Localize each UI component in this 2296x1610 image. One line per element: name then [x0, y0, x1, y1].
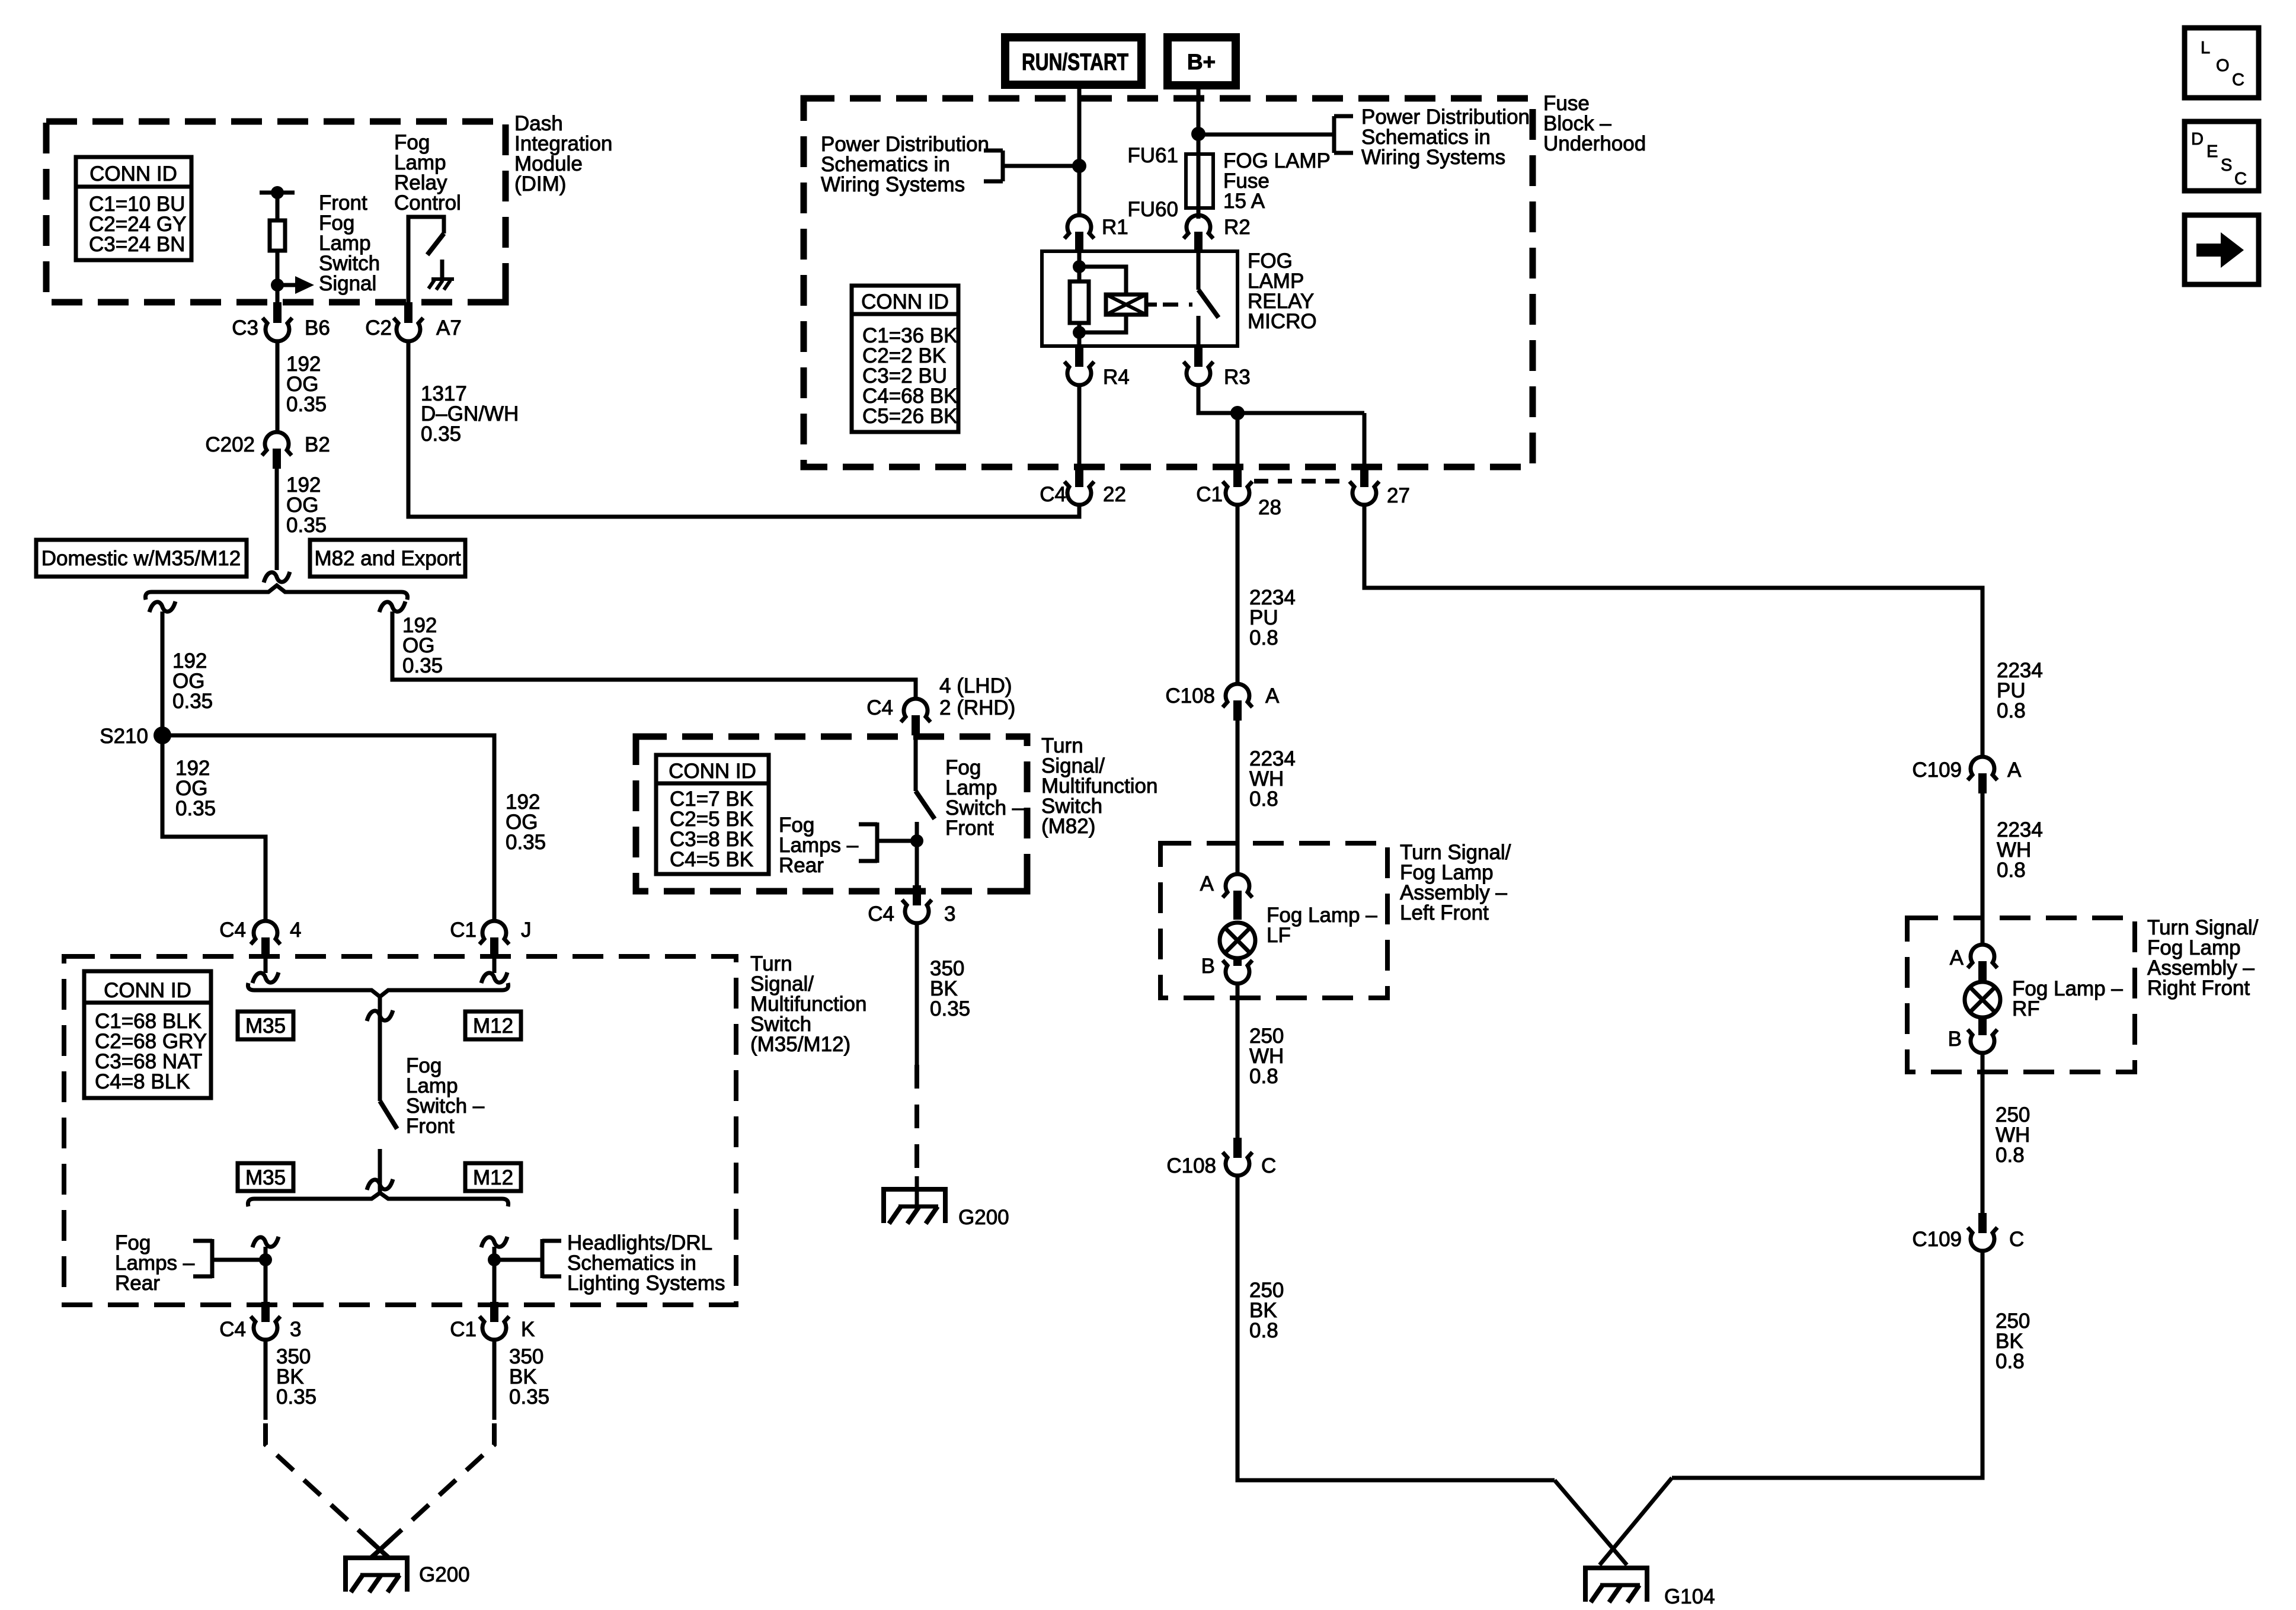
svg-text:CONN ID: CONN ID — [861, 290, 949, 313]
wire crossing above G200 — [368, 1539, 392, 1558]
connector C4 pin 3 (M35 out) — [219, 1302, 301, 1341]
svg-text:C4: C4 — [219, 918, 246, 942]
break symbol right output — [481, 1237, 507, 1247]
connector C1 pin J (M35) — [450, 918, 531, 958]
svg-text:2 (RHD): 2 (RHD) — [939, 696, 1015, 719]
svg-text:S: S — [2221, 156, 2232, 175]
svg-text:Front: Front — [406, 1115, 455, 1138]
diagonal wire to G104 (left) — [1555, 1480, 1627, 1565]
svg-text:B2: B2 — [305, 433, 330, 456]
relay solenoid X-box — [1106, 295, 1157, 315]
label Turn Signal Fog Lamp Assembly Right Front — [2147, 916, 2259, 1000]
label Fog Lamps - Rear (M35) — [115, 1231, 195, 1295]
junction dot left — [259, 1253, 272, 1266]
connector C108 pin A — [1165, 684, 1280, 721]
break symbol on switch wire — [367, 1010, 393, 1021]
label Fog Lamp Switch - Front (M82) — [945, 756, 1024, 840]
svg-text:MICRO: MICRO — [1248, 310, 1317, 333]
svg-text:0.35: 0.35 — [930, 997, 970, 1020]
break symbol domestic branch — [149, 601, 175, 612]
wire R3 to branches — [1198, 384, 1364, 413]
wire to C4 pin 3 (M82) — [915, 841, 919, 885]
svg-text:(M35/M12): (M35/M12) — [750, 1033, 850, 1056]
svg-text:G200: G200 — [958, 1206, 1009, 1229]
wire C1-K down — [493, 1339, 497, 1420]
svg-text:C4=5 BK: C4=5 BK — [670, 848, 753, 871]
DIM relay control switch — [408, 217, 444, 302]
svg-text:0.35: 0.35 — [421, 422, 461, 446]
break symbol above option split — [264, 572, 290, 582]
wire stub below C4-4 — [264, 958, 268, 973]
svg-text:R2: R2 — [1224, 216, 1251, 239]
connector pin R2 — [1184, 215, 1251, 252]
svg-text:Front: Front — [945, 817, 994, 840]
svg-text:B6: B6 — [305, 316, 330, 340]
junction dot on terminal bar — [271, 186, 284, 199]
M35 CONN ID table — [84, 971, 211, 1098]
option box M12 (lower) — [465, 1163, 521, 1191]
DIM box corner piece — [488, 284, 506, 302]
relay switch fixed contact — [1197, 316, 1201, 346]
ground G104 — [1583, 1566, 1715, 1608]
connector C109 pin C — [1912, 1213, 2024, 1251]
relay coil resistor — [1070, 281, 1089, 323]
break symbol below contact — [367, 1179, 393, 1190]
svg-text:(M82): (M82) — [1041, 815, 1095, 838]
connector C108 pin C — [1166, 1138, 1276, 1177]
connector pin B (LF) — [1201, 955, 1252, 984]
fuse FU61/FU60 FOG LAMP Fuse 15A — [1186, 154, 1213, 208]
connector pin B (RF) — [1948, 1017, 1997, 1053]
wire label 192 OG 0.35 (C202) — [286, 473, 327, 537]
DIM internal ground contact — [428, 260, 454, 290]
svg-text:A7: A7 — [436, 316, 462, 340]
svg-text:3: 3 — [290, 1318, 301, 1341]
relay box FOG LAMP RELAY MICRO — [1042, 251, 1237, 346]
wire label 2234 WH 0.8 (right) — [1997, 818, 2043, 882]
break symbol left output — [252, 1237, 279, 1247]
svg-text:0.8: 0.8 — [1997, 859, 2026, 882]
wire label 2234 WH 0.8 (left) — [1249, 747, 1296, 811]
wire label 1317 D-GN/WH 0.35 — [421, 382, 519, 446]
wire label 250 BK 0.8 (left) — [1249, 1279, 1284, 1342]
fog lamp switch front (M35) wire — [378, 997, 382, 1101]
wire right output to C1 K — [493, 1247, 497, 1302]
break symbol below C4-4 — [252, 972, 279, 983]
svg-text:R3: R3 — [1224, 366, 1251, 389]
svg-text:Domestic w/M35/M12: Domestic w/M35/M12 — [41, 547, 241, 570]
reference text: Power Distribution Schematics (right) — [1361, 105, 1530, 169]
svg-text:0.8: 0.8 — [1996, 1144, 2025, 1167]
svg-text:A: A — [1950, 946, 1964, 969]
svg-text:B: B — [1948, 1028, 1962, 1051]
svg-text:E: E — [2207, 142, 2218, 161]
svg-text:C: C — [2234, 169, 2247, 188]
M82 box corner piece — [1009, 873, 1027, 891]
svg-text:15 A: 15 A — [1223, 190, 1265, 213]
svg-text:C: C — [2009, 1228, 2024, 1251]
wire C4-3 to G200 (solid) — [915, 922, 919, 1065]
svg-text:4: 4 — [290, 918, 301, 942]
ground G200 (center) — [881, 1176, 1009, 1229]
relay switch wire from R2 — [1197, 252, 1201, 290]
wire label 192 OG 0.35 (M82 branch) — [402, 614, 443, 677]
svg-text:CONN ID: CONN ID — [89, 162, 177, 185]
wire label 192 OG 0.35 (C3-B6) — [286, 353, 327, 416]
wire C3 to C202 — [276, 340, 280, 433]
connector pin A (LF) — [1200, 872, 1252, 920]
svg-text:0.8: 0.8 — [1249, 1319, 1278, 1342]
svg-text:3: 3 — [944, 902, 955, 926]
svg-text:22: 22 — [1103, 483, 1126, 506]
wire label 350 BK 0.35 (right) — [509, 1345, 549, 1409]
connector pin R3 — [1184, 346, 1251, 389]
label FU60 — [1127, 198, 1178, 221]
junction on B+ wire — [1191, 127, 1205, 141]
fog lamp switch front (M35) contact — [378, 1149, 382, 1193]
svg-text:A: A — [1200, 872, 1214, 895]
svg-text:M35: M35 — [245, 1166, 286, 1189]
label Fog Lamp - LF — [1267, 904, 1377, 947]
connector pin A (RF) — [1950, 945, 1997, 981]
label Dash Integration Module (DIM) — [514, 112, 612, 196]
wire LF to C108 C — [1236, 982, 1240, 1138]
svg-text:Underhood: Underhood — [1543, 132, 1646, 155]
label FU61 — [1127, 144, 1178, 167]
svg-text:0.8: 0.8 — [1996, 1350, 2025, 1373]
wire label 192 OG 0.35 (S210 right) — [506, 790, 546, 854]
connector C3 pin B6 — [232, 302, 330, 341]
svg-text:R4: R4 — [1103, 366, 1130, 389]
wire label 192 OG 0.35 (domestic branch) — [172, 649, 213, 713]
connector C1 pin K (M35 out) — [450, 1302, 535, 1341]
M82 CONN ID table — [656, 755, 769, 874]
dashed wire to G200 right — [371, 1423, 494, 1558]
svg-text:C4: C4 — [868, 902, 894, 926]
svg-text:B+: B+ — [1187, 50, 1216, 74]
svg-text:27: 27 — [1387, 484, 1410, 507]
wire RF to C109 C — [1981, 1052, 1985, 1213]
break symbol below C1-J — [481, 972, 507, 983]
svg-text:C108: C108 — [1166, 1154, 1216, 1177]
svg-text:C202: C202 — [205, 433, 255, 456]
connector pin R1 — [1064, 215, 1128, 252]
wire left output to C4 3 — [264, 1247, 268, 1302]
svg-text:C4: C4 — [219, 1318, 246, 1341]
wire C1-28 down to C108 — [1236, 504, 1240, 684]
wire label 350 BK 0.35 (M82) — [930, 957, 970, 1020]
svg-text:C: C — [1261, 1154, 1276, 1177]
option box M35 (lower) — [238, 1163, 293, 1191]
connector pin R4 — [1064, 346, 1130, 389]
relay coil loop — [1079, 267, 1126, 332]
label Turn Signal Multifunction Switch (M35/M12) — [750, 952, 866, 1056]
junction dot right — [488, 1253, 501, 1266]
svg-text:C1: C1 — [450, 918, 477, 942]
svg-text:LF: LF — [1267, 924, 1291, 947]
svg-text:C1: C1 — [1196, 483, 1223, 506]
wire label 350 BK 0.35 (left) — [276, 1345, 316, 1409]
bracket Fog Lamps Rear (M35) — [193, 1239, 266, 1278]
bracket Fog Lamps Rear (M82) — [859, 822, 917, 863]
dashed wire to G200 left — [266, 1423, 389, 1558]
svg-text:B: B — [1201, 955, 1215, 978]
wire label 2234 PU 0.8 (left) — [1249, 586, 1296, 649]
connector C4 pin 4 (M35) — [219, 918, 301, 958]
dashed connector line C1 28-27 — [1254, 479, 1349, 484]
wire S210 to C1 J — [162, 735, 494, 921]
svg-text:Rear: Rear — [779, 854, 824, 877]
svg-text:0.35: 0.35 — [402, 654, 443, 677]
relay coil branch wire — [1077, 251, 1082, 346]
svg-text:C4=8 BLK: C4=8 BLK — [95, 1070, 190, 1093]
connector C4 pin 3 (M82) — [868, 885, 955, 926]
svg-text:4 (LHD): 4 (LHD) — [939, 674, 1012, 697]
svg-text:M82 and Export: M82 and Export — [314, 547, 461, 570]
svg-text:O: O — [2216, 56, 2230, 75]
svg-text:C4: C4 — [1040, 483, 1066, 506]
wire C108-C to G104 — [1237, 1174, 1555, 1480]
label FOG LAMP Fuse 15 A — [1223, 149, 1331, 213]
svg-text:C5=26 BK: C5=26 BK — [862, 405, 958, 428]
label Turn Signal Multifunction Switch (M82) — [1041, 734, 1157, 838]
wire label 250 WH 0.8 (left) — [1249, 1025, 1284, 1088]
wire to G200 dashed — [914, 1065, 919, 1178]
svg-text:Signal: Signal — [319, 272, 376, 295]
svg-text:M35: M35 — [245, 1014, 286, 1038]
legend box LOC — [2185, 28, 2259, 98]
fog lamp switch front (M82) wire — [914, 735, 918, 791]
svg-text:0.35: 0.35 — [286, 393, 327, 416]
svg-text:FU60: FU60 — [1127, 198, 1178, 221]
resistor (front fog lamp switch signal) — [270, 193, 285, 302]
label FOG LAMP RELAY MICRO — [1248, 249, 1317, 333]
wire C108-A to LF lamp — [1236, 721, 1240, 875]
fuse block CONN ID table — [852, 286, 958, 432]
svg-text:28: 28 — [1258, 496, 1281, 519]
svg-text:C: C — [2232, 71, 2244, 89]
label Turn Signal Fog Lamp Assembly Left Front — [1400, 841, 1511, 924]
split bracket (M35/M12 outputs) — [248, 1193, 508, 1206]
wire domestic branch to S210 — [161, 612, 165, 735]
splice S210 — [100, 725, 171, 748]
svg-text:C2: C2 — [365, 316, 392, 340]
svg-text:J: J — [521, 918, 532, 942]
relay switch blade (open) — [1198, 290, 1219, 318]
svg-text:0.35: 0.35 — [509, 1385, 549, 1409]
junction dot (M82 switch) — [910, 834, 923, 847]
label Headlights/DRL Schematics in Lighting Systems — [567, 1231, 725, 1295]
svg-text:CONN ID: CONN ID — [104, 979, 191, 1002]
svg-text:0.8: 0.8 — [1249, 626, 1278, 649]
wire label 250 WH 0.8 (right) — [1996, 1103, 2030, 1167]
svg-text:C4: C4 — [866, 696, 893, 719]
connector C4 pin 22 — [1040, 468, 1126, 506]
svg-text:K: K — [521, 1318, 535, 1341]
svg-text:D: D — [2191, 130, 2204, 149]
fog lamp switch front (M82) blade — [916, 791, 935, 819]
fog lamp switch front (M82) contact — [915, 822, 919, 841]
svg-text:Wiring Systems: Wiring Systems — [1361, 146, 1505, 169]
wire C202 to option split — [275, 469, 279, 570]
wire R4 to C4 pin 22 — [1077, 384, 1082, 468]
svg-text:Left Front: Left Front — [1400, 901, 1489, 924]
svg-text:0.8: 0.8 — [1249, 1065, 1278, 1088]
M82 switch dashed box — [636, 737, 1027, 891]
connector C109 pin A — [1912, 757, 2022, 793]
svg-text:A: A — [1265, 684, 1280, 708]
label Fog Lamps - Rear (M82) — [779, 814, 859, 877]
DIM dashed box (Dash Integration Module) — [46, 121, 506, 302]
junction on RUN/START wire — [1072, 159, 1086, 173]
ground G200 (left) — [343, 1556, 470, 1592]
wire: B+ feed — [1197, 85, 1201, 219]
connector C4 pin 2 (M82 switch) — [866, 674, 1015, 735]
wire to pin 27 — [1363, 413, 1367, 468]
svg-text:Control: Control — [394, 191, 461, 215]
connector C1 pin 28 — [1196, 468, 1281, 519]
svg-text:0.35: 0.35 — [286, 514, 327, 537]
wire S210 down to C4 4 — [162, 735, 266, 921]
option split bracket — [145, 585, 407, 600]
legend box arrow — [2185, 215, 2259, 284]
wire C109-A to RF lamp — [1981, 793, 1985, 945]
wire label 192 OG 0.35 (below S210) — [175, 757, 216, 820]
reference text: Power Distribution Schematics (left) — [821, 133, 989, 196]
svg-text:M12: M12 — [473, 1014, 513, 1038]
svg-text:Wiring Systems: Wiring Systems — [821, 173, 965, 196]
label Fuse Block - Underhood — [1543, 92, 1646, 155]
junction node on R3 output — [1230, 406, 1245, 420]
junction dot at signal arrow — [271, 279, 284, 292]
svg-text:R1: R1 — [1102, 216, 1128, 239]
svg-text:C1: C1 — [450, 1318, 477, 1341]
RF lamp assembly dashed box — [1907, 918, 2135, 1072]
power node B+ box — [1168, 37, 1236, 85]
option box M12 (upper) — [465, 1012, 521, 1039]
merge bracket (M35/M12 inputs) — [248, 983, 508, 997]
wire C109-C to G104 — [1672, 1250, 1982, 1478]
svg-text:G200: G200 — [419, 1563, 470, 1586]
svg-text:S210: S210 — [100, 725, 148, 748]
label Front Fog Lamp Switch Signal — [319, 191, 380, 295]
svg-text:G104: G104 — [1664, 1585, 1715, 1608]
svg-text:L: L — [2201, 39, 2210, 57]
wire 27 to right feed — [1364, 504, 1982, 757]
svg-text:CONN ID: CONN ID — [669, 760, 756, 783]
wire label 250 BK 0.8 (right) — [1996, 1310, 2030, 1373]
wire to C1 pin 28 — [1236, 413, 1240, 468]
power node RUN/START box — [1005, 37, 1141, 85]
fog lamp RF bulb — [1965, 982, 2000, 1017]
connector pin 27 — [1350, 468, 1410, 507]
DIM CONN ID table — [76, 157, 191, 260]
legend box DESC — [2185, 121, 2259, 191]
wire stub below C1-J — [493, 958, 497, 973]
option label box M82 and Export — [310, 540, 465, 577]
svg-text:0.35: 0.35 — [172, 690, 213, 713]
junction dots relay coil — [1073, 260, 1086, 339]
signal arrow — [277, 276, 314, 294]
option box M35 (upper) — [238, 1012, 293, 1039]
svg-text:C109: C109 — [1912, 758, 1962, 782]
front fog lamp switch signal terminal bar — [260, 191, 295, 195]
svg-text:Rear: Rear — [115, 1272, 160, 1295]
wire C2-A7 to fuse block C4-22 — [408, 340, 1079, 517]
svg-text:RUN/START: RUN/START — [1022, 49, 1128, 75]
svg-text:Lighting Systems: Lighting Systems — [567, 1272, 725, 1295]
svg-text:Right Front: Right Front — [2147, 977, 2250, 1000]
svg-text:M12: M12 — [473, 1166, 513, 1189]
break symbol M82 branch — [379, 601, 405, 612]
svg-text:0.8: 0.8 — [1997, 699, 2026, 722]
option label box Domestic w/M35-M12 — [36, 540, 247, 577]
wire: RUN/START feed into fuse block — [1077, 85, 1082, 215]
wire C4-3 down — [264, 1339, 268, 1420]
label Fog Lamp Relay Control — [394, 131, 461, 215]
fog lamp switch front (M35) blade — [380, 1101, 397, 1129]
bracket Headlights/DRL — [494, 1239, 561, 1278]
svg-text:C3: C3 — [232, 316, 258, 340]
wire label 2234 PU 0.8 (right) — [1997, 659, 2043, 722]
bracket to Power Distribution ref (left) — [984, 151, 1079, 181]
relay mechanical link (dashed) — [1163, 303, 1192, 307]
svg-text:0.35: 0.35 — [506, 831, 546, 854]
svg-text:C108: C108 — [1165, 684, 1215, 708]
svg-text:A: A — [2007, 758, 2022, 782]
fuse block dashed box (Fuse Block - Underhood) — [804, 98, 1533, 467]
svg-text:0.35: 0.35 — [276, 1385, 316, 1409]
svg-text:0.8: 0.8 — [1249, 788, 1278, 811]
svg-text:FU61: FU61 — [1127, 144, 1178, 167]
bracket to Power Distribution ref (right) — [1198, 116, 1353, 153]
svg-text:C109: C109 — [1912, 1228, 1962, 1251]
LF lamp assembly dashed box — [1160, 843, 1387, 998]
wire M82 branch to fog lamp switch front — [392, 612, 916, 699]
label Fog Lamp Switch - Front (M35) — [406, 1054, 485, 1138]
connector C2 pin A7 — [365, 302, 462, 341]
svg-text:0.35: 0.35 — [175, 797, 216, 820]
diagonal wire to G104 (right) — [1600, 1478, 1672, 1565]
svg-text:RF: RF — [2012, 997, 2040, 1020]
connector C202 pin B2 — [205, 432, 330, 469]
M35/M12 switch dashed box — [64, 956, 736, 1305]
svg-text:(DIM): (DIM) — [514, 172, 566, 196]
fog lamp LF bulb — [1220, 923, 1255, 958]
label Fog Lamp - RF — [2012, 977, 2123, 1020]
svg-text:C3=24 BN: C3=24 BN — [89, 233, 185, 256]
